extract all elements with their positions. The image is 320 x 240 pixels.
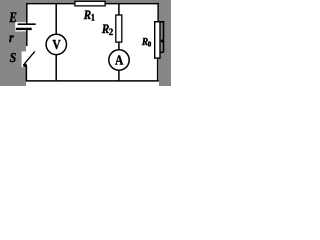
resistor R2 box (116, 15, 122, 42)
wire: junction bar at rheostat top (154, 21, 164, 23)
svg-text:S: S (10, 49, 17, 65)
battery short plate (16, 28, 32, 30)
wire: voltmeter branch upper (55, 3, 57, 35)
wire: right slider wire vertical (163, 22, 165, 53)
grey background (0, 0, 171, 86)
white patch behind switch (22, 51, 27, 67)
svg-text:V: V (52, 37, 61, 52)
svg-text:1: 1 (91, 12, 95, 23)
svg-text:E: E (8, 10, 16, 25)
voltmeter U1 circle (46, 34, 66, 54)
rheostat slider arrow (161, 40, 163, 42)
switch pivot dot (23, 63, 27, 67)
resistor R1 box (75, 1, 105, 6)
wire: top-right corner vertical (157, 3, 159, 22)
wire: left vertical (battery to switch) (26, 29, 28, 46)
svg-text:A: A (115, 52, 124, 67)
svg-text:0: 0 (148, 41, 152, 49)
switch lever (25, 51, 35, 63)
rheostat Rb box (155, 22, 160, 58)
svg-text:2: 2 (109, 27, 114, 38)
ammeter U2 circle (109, 50, 129, 70)
white patch behind battery (15, 22, 26, 31)
wire: stub below rheostat (157, 58, 159, 81)
wire: left vertical lower (switch to bottom) (25, 65, 27, 81)
wire: left vertical upper (top to battery) (26, 3, 28, 24)
wire: slider wire jog into box (160, 51, 164, 53)
wire: top horizontal (26, 3, 159, 5)
wire: bottom horizontal (26, 80, 159, 82)
svg-text:R: R (83, 7, 91, 22)
battery long plate (18, 23, 36, 25)
wire: voltmeter branch lower (55, 54, 57, 81)
wire: middle branch bottom (118, 70, 120, 81)
white circuit interior (26, 3, 159, 86)
wire: middle branch between R2 and ammeter (118, 42, 120, 50)
wire: middle branch top (118, 3, 120, 15)
